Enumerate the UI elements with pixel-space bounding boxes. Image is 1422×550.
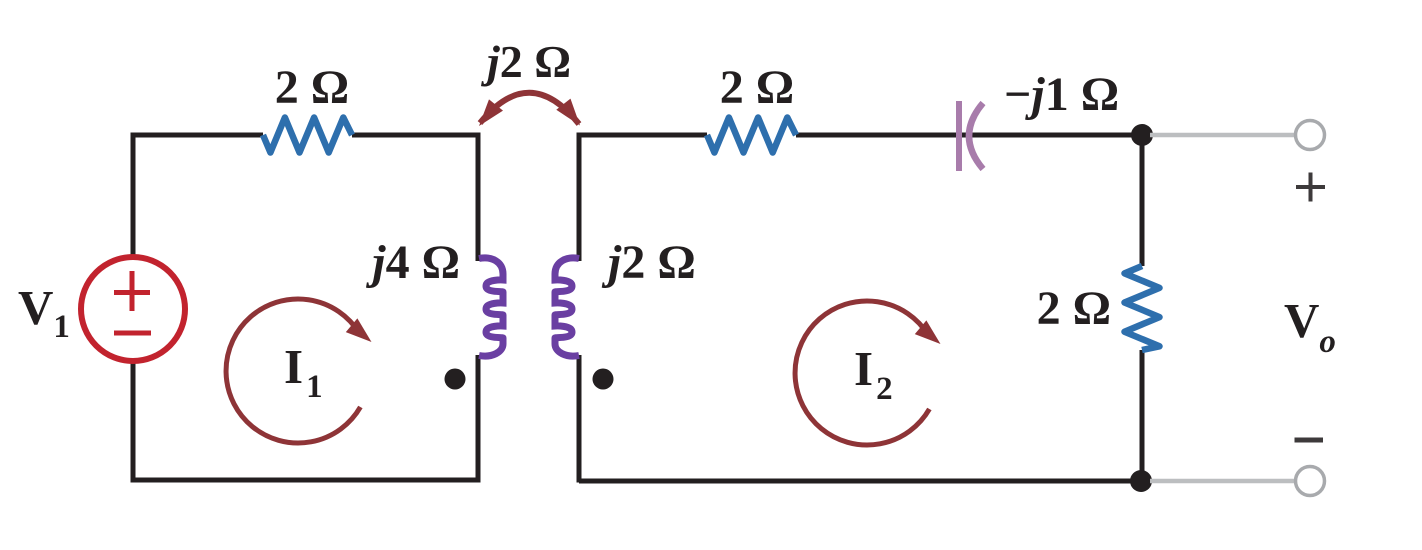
coupling dot (secondary) [593,369,614,390]
node junction dot top right [1131,124,1153,146]
resistor R1 2ohm (top left) [263,118,352,153]
mesh current arrow I2 [795,301,946,445]
wire: left rail below source [131,361,136,480]
svg-text:2 Ω: 2 Ω [1037,282,1111,335]
wire: right loop bottom [579,479,1142,484]
plus sign (output) [1296,173,1325,202]
wire: primary coil vertical bottom [476,355,481,483]
wire: primary coil vertical top [476,133,481,262]
svg-text:2 Ω: 2 Ω [275,61,349,114]
wire: left loop top right segment [352,133,481,138]
wire: right loop top right segment through capacitor [796,133,1142,138]
svg-text:j4 Ω: j4 Ω [365,236,460,289]
wire: left loop bottom [131,478,479,483]
resistor R2 2ohm (top right) [707,118,796,153]
svg-text:j2 Ω: j2 Ω [601,236,696,289]
wire: secondary coil vertical top [577,133,582,262]
wire: right loop top left segment [577,133,708,138]
mutual inductance arrow j2 ohm [472,93,587,132]
capacitor C -j1 ohm [959,101,983,171]
mesh current arrow I1 [226,299,377,443]
voltage source V1 [81,257,185,361]
wire: right rail above resistor [1140,135,1145,266]
terminal bottom [1296,467,1325,496]
minus sign (output) [1295,438,1324,443]
wire: gray lead to bottom terminal [1150,479,1295,484]
coupling dot (primary) [445,369,466,390]
node junction dot bottom right [1130,470,1152,492]
wire: gray lead to top terminal [1150,133,1295,138]
resistor R3 2ohm (right vertical) [1125,266,1160,350]
wire: secondary coil vertical bottom [577,355,582,483]
terminal top [1296,121,1325,150]
svg-text:−j1 Ω: −j1 Ω [1004,68,1119,121]
inductor L1 j4 ohm (primary coil) [479,258,503,356]
inductor L2 j2 ohm (secondary coil) [555,258,579,356]
wire: left loop outline [133,135,263,258]
svg-text:2 Ω: 2 Ω [720,61,794,114]
wire: right rail below resistor [1140,350,1145,481]
svg-text:j2 Ω: j2 Ω [480,36,571,87]
